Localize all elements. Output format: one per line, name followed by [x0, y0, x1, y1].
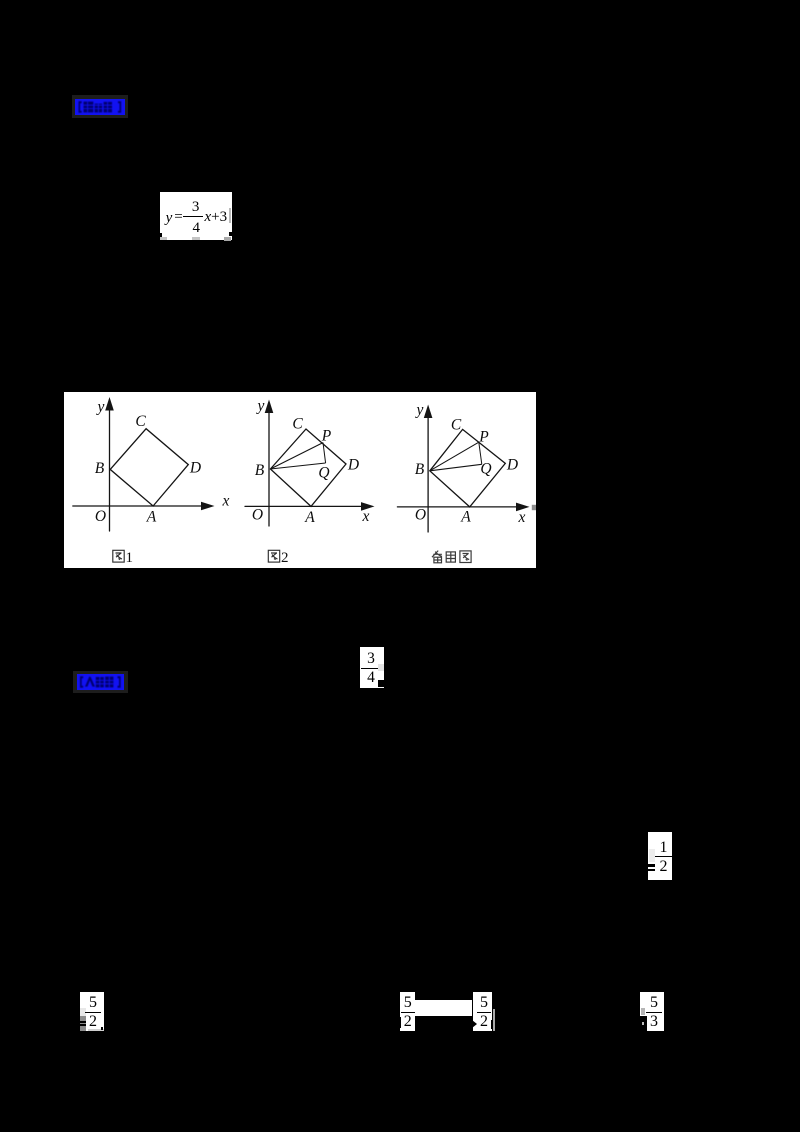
fig1 y-axis arrowhead	[105, 397, 114, 411]
svg-text:1: 1	[126, 550, 134, 566]
equation image 5/3 white box	[640, 992, 664, 1031]
black tick bottom-right of equation box	[229, 232, 231, 236]
5/3 black blob bottom-left	[640, 1016, 647, 1031]
equation fraction bar	[183, 216, 204, 217]
svg-text:x: x	[222, 493, 230, 510]
equation fraction numerator 3	[188, 200, 204, 214]
middle pair black arrow mark	[472, 1020, 477, 1028]
fig3 y-axis	[427, 413, 429, 532]
svg-text:Q: Q	[318, 465, 329, 482]
figures white panel	[64, 392, 536, 568]
fig2 y-axis	[268, 408, 270, 526]
svg-text:D: D	[506, 457, 518, 474]
highlighted tag box 2 glyphs	[77, 674, 124, 690]
svg-text:P: P	[478, 429, 489, 446]
fig2 square ABCD	[270, 429, 346, 506]
fig1 square ABCD	[110, 429, 188, 506]
fig2 labels	[252, 398, 370, 527]
svg-text:B: B	[95, 460, 105, 477]
svg-text:D: D	[189, 460, 201, 477]
equation 1/2 fraction	[655, 836, 672, 878]
equation x+3	[205, 208, 231, 226]
equation box handle bottom-center	[192, 237, 200, 241]
svg-text:x: x	[518, 509, 526, 526]
highlighted tag box 2 blue fill	[77, 674, 124, 690]
fig3 x-axis	[397, 506, 517, 508]
middle pair left black tick	[399, 1017, 402, 1028]
svg-text:P: P	[321, 428, 332, 445]
fig3 caption 备用图	[432, 551, 471, 563]
svg-text:O: O	[252, 507, 263, 524]
equation image 5/2=5/2 left box	[400, 992, 415, 1031]
equation box handle bottom-right	[224, 237, 231, 241]
fig3 square ABCD	[430, 429, 506, 507]
fig1 labels	[95, 399, 230, 526]
svg-text:C: C	[292, 416, 303, 433]
fig2 segment P-Q	[323, 443, 326, 463]
highlighted tag box 1 blue fill	[75, 99, 125, 115]
fig3 x-axis arrowhead	[516, 503, 530, 512]
middle-left 5/2 fraction	[401, 993, 415, 1031]
5/3 grey block left	[641, 1008, 645, 1014]
svg-text:y: y	[96, 399, 105, 416]
5/2 left grey light block	[80, 1008, 86, 1016]
svg-text:D: D	[347, 457, 359, 474]
equation 3/4 grey handle right	[378, 664, 383, 671]
fig3 segment P-Q	[479, 442, 482, 464]
svg-text:A: A	[146, 509, 157, 526]
5/3 fraction	[646, 993, 662, 1031]
svg-text:Q: Q	[480, 461, 491, 478]
equation 3/4 black mark bottom-right	[378, 680, 383, 687]
svg-text:C: C	[135, 413, 146, 430]
middle-right 5/2 fraction	[477, 993, 491, 1031]
highlighted tag box 2 frame	[73, 671, 128, 693]
svg-text:x: x	[362, 508, 370, 525]
equation 3/4 fraction	[361, 649, 381, 687]
equation box handle bottom-left	[160, 237, 167, 241]
fig1 x-axis	[73, 505, 202, 507]
equation image 5/2=5/2 right box	[473, 992, 492, 1031]
fig3 segment B-Q	[430, 464, 482, 471]
svg-text:C: C	[451, 417, 462, 434]
5/2 left bottom grey strip	[88, 1029, 105, 1032]
fig1 x-axis arrowhead	[201, 502, 215, 511]
5/2 left equals sign bars	[79, 1021, 86, 1023]
equation image 5/2 left white box	[80, 992, 104, 1031]
5/2 left grey dark block	[80, 1016, 86, 1031]
svg-text:y: y	[256, 398, 265, 415]
fig2 segment B-P	[270, 443, 323, 469]
equation fraction denominator 4	[188, 223, 204, 237]
fig3 labels	[415, 402, 526, 527]
fig1 y-axis	[109, 406, 111, 531]
equation 1/2 grey strip	[649, 849, 655, 863]
equation box handle right	[229, 208, 231, 223]
svg-text:B: B	[255, 462, 265, 479]
connector white strip	[415, 1000, 472, 1017]
fig2 caption 图2	[268, 550, 279, 562]
fig1 caption 图1	[113, 550, 124, 562]
svg-text:O: O	[95, 508, 106, 525]
fig2 y-axis arrowhead	[265, 400, 274, 414]
5/2 left fraction	[85, 993, 101, 1031]
svg-text:B: B	[415, 461, 425, 478]
svg-text:y: y	[415, 402, 424, 419]
5/3 black blob notch	[642, 1022, 645, 1026]
fig2 segment B-Q	[270, 463, 325, 469]
equation image 3/4 white box	[360, 647, 384, 688]
equation 1/2 equals sign bars	[648, 864, 655, 867]
fig2 x-axis	[245, 505, 362, 507]
5/2 left black mark right-bottom	[101, 1027, 103, 1031]
equation image y=3/4x+3 white box	[160, 192, 232, 240]
fig3 selection handle grey	[532, 505, 536, 510]
highlighted tag box 1 frame	[72, 95, 128, 118]
svg-text:A: A	[304, 509, 315, 526]
fig3 y-axis arrowhead	[424, 405, 433, 419]
fig3 segment B-P	[430, 442, 479, 471]
fig2 x-axis arrowhead	[361, 502, 375, 511]
svg-text:A: A	[460, 509, 471, 526]
black tick bottom-left of equation box	[159, 233, 162, 238]
highlighted tag box 1 glyphs	[75, 99, 125, 115]
svg-text:2: 2	[281, 550, 289, 566]
equation 3/4 comma	[384, 683, 387, 689]
equation equals sign	[174, 208, 183, 226]
equation y label	[163, 209, 175, 227]
middle pair right black tick	[491, 1020, 492, 1028]
svg-text:O: O	[415, 507, 426, 524]
middle pair grey handle right	[493, 1009, 495, 1031]
equation image 1/2 white box	[648, 832, 672, 880]
